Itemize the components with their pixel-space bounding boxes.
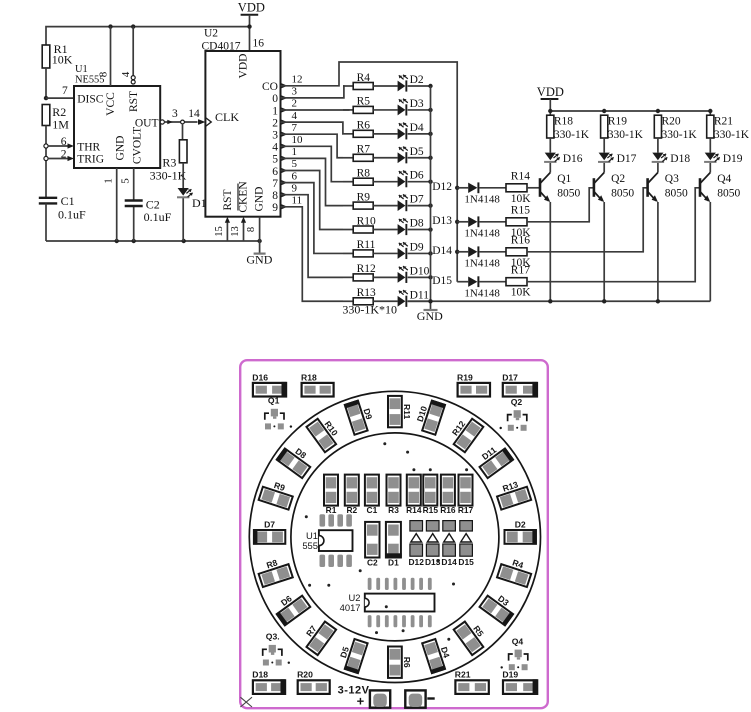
PCB ring footprint R9 <box>259 487 293 510</box>
LED D5 <box>398 147 408 164</box>
wire R4 to D2 <box>373 85 397 87</box>
ground symbol (U2) <box>246 241 272 267</box>
PCB ring footprint D8 <box>276 447 311 478</box>
wire R3 to D1 <box>182 163 184 188</box>
PCB battery pad positive <box>370 690 390 707</box>
svg-text:D9: D9 <box>410 241 424 253</box>
pin 15 RST wire <box>214 217 230 241</box>
PCB ring footprint R6 <box>388 647 402 678</box>
svg-text:D3: D3 <box>410 98 424 110</box>
svg-text:R11: R11 <box>357 239 376 251</box>
svg-text:D2: D2 <box>515 520 526 530</box>
wire C1 to bottom rail <box>45 203 47 241</box>
svg-text:D12: D12 <box>409 557 425 567</box>
svg-text:10K: 10K <box>52 53 73 67</box>
svg-text:9: 9 <box>272 202 278 214</box>
junction U2 pin8 rail <box>257 239 261 243</box>
LED D8 <box>398 218 408 235</box>
LED D1 <box>177 188 193 198</box>
junction D1 rail <box>182 239 186 243</box>
PCB ring label R8 <box>265 557 279 570</box>
svg-text:1N4148: 1N4148 <box>464 227 500 239</box>
svg-text:12: 12 <box>292 74 303 86</box>
svg-text:10K: 10K <box>511 287 532 299</box>
junction top rail / U1 VCC <box>108 24 112 28</box>
wire D14 to R16 <box>479 251 506 253</box>
LED D18 <box>652 153 668 163</box>
junction top rail / U2 VDD pin 16 <box>247 24 251 28</box>
wire R10 to D8 <box>373 229 397 231</box>
PCB footprint Q4 <box>501 636 528 670</box>
svg-text:330-1K: 330-1K <box>554 129 590 141</box>
RST pin terminal circles <box>131 76 135 84</box>
PCB battery label 3-12V <box>338 684 370 708</box>
svg-text:10: 10 <box>292 134 304 146</box>
svg-text:Q4: Q4 <box>512 636 524 646</box>
U2 output pin 11 (9) <box>272 195 302 215</box>
label node D13 <box>432 215 452 227</box>
svg-text:D10: D10 <box>410 265 430 277</box>
junction top rail / U1 RST <box>131 24 135 28</box>
wire feed to diode D15 <box>457 281 468 283</box>
PCB ring label R5 <box>471 624 486 639</box>
U2 output pin 9 (8) <box>272 182 297 202</box>
power symbol VDD (top) <box>238 0 265 51</box>
svg-text:6: 6 <box>61 136 67 148</box>
PCB ring footprint D4 <box>421 639 446 674</box>
PCB ring footprint D10 <box>421 400 446 435</box>
svg-text:D2: D2 <box>410 74 424 86</box>
U2 output pin 5 (6) <box>272 158 297 178</box>
svg-text:1M: 1M <box>52 118 69 132</box>
PCB ring footprint D11 <box>479 447 514 478</box>
svg-text:D8: D8 <box>410 218 424 230</box>
svg-text:R8: R8 <box>357 167 371 179</box>
wire LED cathode bus <box>430 86 432 301</box>
junction bus row D7 <box>428 203 432 207</box>
PCB outer circle <box>249 391 540 682</box>
pin 8 VCC wire <box>97 27 110 86</box>
svg-text:8: 8 <box>246 227 257 232</box>
wire OUT to CLK <box>160 108 204 124</box>
LED D16 <box>544 153 560 163</box>
svg-text:R1: R1 <box>326 505 337 515</box>
CKEN overline <box>237 184 239 211</box>
resistor R20 330-1K <box>654 115 697 141</box>
wire R9 to D7 <box>373 205 397 207</box>
PCB ring label D3 <box>496 593 511 608</box>
junction bus row D6 <box>428 179 432 183</box>
diode D14 1N4148 <box>468 246 479 257</box>
junction bus row D2 <box>428 84 432 88</box>
PCB battery pad negative <box>405 690 425 707</box>
svg-text:D18: D18 <box>670 153 690 165</box>
svg-text:2: 2 <box>272 117 278 129</box>
svg-text:RST: RST <box>222 189 234 210</box>
junction emitter rail Q2 <box>602 299 606 303</box>
resistor R10 <box>353 215 376 233</box>
wire R17 to Q4 base <box>527 188 700 282</box>
PCB footprint R15 <box>423 475 439 516</box>
svg-text:Q2: Q2 <box>511 397 523 407</box>
svg-text:4017: 4017 <box>340 602 361 613</box>
resistor R1 10K <box>42 42 72 68</box>
svg-text:1N4148: 1N4148 <box>464 257 500 269</box>
junction bus row D3 <box>428 108 432 112</box>
PCB footprint R17 <box>458 475 474 516</box>
svg-text:9: 9 <box>292 182 298 194</box>
wire R6 to D4 <box>373 133 397 135</box>
svg-text:D19: D19 <box>502 670 518 680</box>
svg-text:GND: GND <box>417 309 443 323</box>
svg-text:CLK: CLK <box>215 110 239 124</box>
LED D2 <box>398 75 408 92</box>
PCB footprint Q3 <box>263 632 290 666</box>
svg-text:RST: RST <box>128 91 140 112</box>
wire TRIG pin 2 <box>48 148 74 161</box>
PCB ring label R9 <box>273 480 287 493</box>
svg-text:2: 2 <box>61 148 67 160</box>
wire Q4 emitter to rail <box>709 202 711 301</box>
wire output 3 to R7 <box>281 134 344 158</box>
svg-text:330-1K: 330-1K <box>150 169 187 183</box>
svg-text:R11: R11 <box>402 404 412 420</box>
wire D9 cathode to bus <box>408 252 431 254</box>
svg-text:4: 4 <box>272 142 278 154</box>
PCB footprint C2 <box>365 522 379 568</box>
wire output 7 to R11 <box>281 183 344 254</box>
wire R18 to D16 <box>549 138 551 153</box>
svg-text:R16: R16 <box>440 505 456 515</box>
LED D19 <box>704 153 720 163</box>
svg-text:7: 7 <box>272 178 278 190</box>
PCB battery minus label <box>427 697 434 699</box>
svg-text:8050: 8050 <box>611 187 634 199</box>
PCB ring footprint D7 <box>253 529 285 544</box>
svg-text:D7: D7 <box>264 520 275 530</box>
svg-text:0: 0 <box>272 93 278 105</box>
wire output 0 to R4 <box>281 86 344 98</box>
node TRIG tap <box>44 156 48 160</box>
svg-text:R21: R21 <box>714 116 733 128</box>
svg-text:330-1K: 330-1K <box>662 129 698 141</box>
resistor R19 330-1K <box>601 115 644 141</box>
wire D13 to R15 <box>479 221 506 223</box>
wire D11 cathode to bus <box>408 300 431 302</box>
svg-text:D14: D14 <box>441 557 457 567</box>
svg-text:13: 13 <box>230 226 241 237</box>
svg-text:14: 14 <box>188 108 200 120</box>
svg-text:D16: D16 <box>563 153 583 165</box>
svg-text:0.1uF: 0.1uF <box>144 210 172 224</box>
wire R5 to D3 <box>373 109 397 111</box>
svg-text:C1: C1 <box>61 194 75 208</box>
svg-text:R12: R12 <box>357 263 376 275</box>
svg-text:8050: 8050 <box>717 187 740 199</box>
wire R11 to D9 <box>373 252 397 254</box>
LED D9 <box>398 242 408 259</box>
PCB ring footprint D6 <box>276 595 311 626</box>
junction VDD rail <box>656 109 660 113</box>
svg-text:5: 5 <box>119 178 131 184</box>
svg-text:330-1K: 330-1K <box>608 129 644 141</box>
LED D6 <box>398 170 408 187</box>
power symbol VDD (right) <box>537 85 564 115</box>
svg-text:1N4148: 1N4148 <box>464 287 500 299</box>
pin 16 label <box>253 38 265 50</box>
svg-text:VDD: VDD <box>238 54 250 79</box>
PCB footprint D12 <box>409 521 425 567</box>
wire R21 to D19 <box>709 138 711 153</box>
wire DISC pin 7 <box>46 97 74 99</box>
svg-text:D16: D16 <box>252 372 268 382</box>
PCB ring footprint R10 <box>306 419 336 453</box>
wire R16 to Q3 base <box>527 188 648 252</box>
svg-text:D1: D1 <box>388 558 399 568</box>
junction bus row D8 <box>428 227 432 231</box>
resistor R16 10K <box>506 235 531 269</box>
svg-text:R10: R10 <box>357 215 376 227</box>
PCB ring footprint D9 <box>344 400 369 435</box>
transistor Q3 8050 <box>648 173 688 203</box>
svg-text:R21: R21 <box>455 670 471 680</box>
wire output 6 to R10 <box>281 171 344 230</box>
svg-text:CVOLT: CVOLT <box>131 127 143 164</box>
wire feed to diode D14 <box>457 251 468 253</box>
wire R1 to DISC node <box>45 68 47 98</box>
svg-text:R15: R15 <box>511 205 530 217</box>
junction bus row D5 <box>428 156 432 160</box>
wire D12 to R14 <box>479 187 506 189</box>
wire D17 to Q2 collector <box>603 163 605 173</box>
resistor R3 330-1K <box>150 140 187 183</box>
PCB ring label D8 <box>293 446 308 461</box>
wire output 5 to R9 <box>281 158 344 205</box>
capacitor C2 0.1uF <box>125 197 172 224</box>
node DISC junction <box>44 96 48 100</box>
wire R3 branch <box>182 124 184 140</box>
svg-text:15: 15 <box>214 226 225 237</box>
svg-text:Q4: Q4 <box>717 173 731 185</box>
svg-text:R2: R2 <box>346 505 357 515</box>
PCB footprint R19 <box>457 372 490 396</box>
svg-text:C2: C2 <box>367 558 378 568</box>
PCB footprint Q1 <box>265 396 292 430</box>
svg-text:TRIG: TRIG <box>77 154 104 166</box>
svg-text:3: 3 <box>172 108 178 120</box>
resistor R6 <box>353 120 373 138</box>
LED D3 <box>398 99 408 116</box>
svg-text:CKEN: CKEN <box>238 181 250 213</box>
pin 5 CVOLT wire <box>119 168 133 241</box>
PCB ring label D11 <box>480 445 498 462</box>
junction bus row D4 <box>428 132 432 136</box>
svg-text:R3: R3 <box>388 505 399 515</box>
wire D15 to R17 <box>479 281 506 283</box>
wire R15 to Q2 base <box>527 188 594 222</box>
wire bottom rail (555 area) <box>46 240 260 242</box>
LED D7 <box>398 194 408 211</box>
junction bus row D10 <box>428 275 432 279</box>
PCB via dots <box>305 442 468 641</box>
svg-text:D12: D12 <box>432 181 452 193</box>
wire output 4 to R8 <box>281 146 344 181</box>
IC U2 CD4017 counter <box>202 28 281 217</box>
U2 output pin 3 (0) <box>272 86 297 106</box>
PCB footprint Q2 <box>500 397 527 431</box>
svg-text:D14: D14 <box>432 245 452 257</box>
diode D13 1N4148 <box>468 216 479 227</box>
LED D4 <box>398 123 408 140</box>
svg-text:11: 11 <box>292 195 303 207</box>
PCB footprint R2 <box>345 475 359 516</box>
svg-text:D15: D15 <box>458 557 474 567</box>
svg-text:0.1uF: 0.1uF <box>58 208 86 222</box>
label node D14 <box>432 245 452 257</box>
svg-text:8050: 8050 <box>665 187 688 199</box>
wire output 8 to R12 <box>281 195 344 278</box>
PCB ring label D6 <box>279 593 294 608</box>
U2 output pin 4 (2) <box>272 110 297 130</box>
junction VDD rail <box>548 109 552 113</box>
resistor R5 <box>353 96 373 114</box>
PCB ring label R6 <box>402 657 412 668</box>
U2 output pin 10 (4) <box>272 134 303 154</box>
PCB ring footprint R11 <box>388 396 402 427</box>
transistor Q1 8050 <box>540 173 580 203</box>
resistor R4 <box>353 72 373 90</box>
svg-text:Q1: Q1 <box>268 396 280 406</box>
LED D17 <box>598 153 614 163</box>
PCB ring footprint R4 <box>497 564 531 587</box>
op-amp U1 NE555 timer <box>74 64 160 168</box>
svg-text:R18: R18 <box>301 372 317 382</box>
svg-text:R20: R20 <box>662 116 681 128</box>
PCB ring label D4 <box>439 646 452 660</box>
svg-text:R20: R20 <box>297 670 313 680</box>
PCB footprint D1 <box>385 522 402 568</box>
junction emitter rail Q3 <box>656 299 660 303</box>
svg-text:D18: D18 <box>252 670 268 680</box>
svg-text:Q3: Q3 <box>665 173 679 185</box>
svg-text:D17: D17 <box>617 153 637 165</box>
svg-text:330-1K: 330-1K <box>714 129 750 141</box>
svg-text:R15: R15 <box>423 505 439 515</box>
svg-text:R5: R5 <box>357 96 371 108</box>
svg-text:1: 1 <box>272 105 278 117</box>
PCB footprint R14 <box>406 475 422 516</box>
svg-text:R16: R16 <box>511 235 530 247</box>
PCB footprint D18 <box>252 670 285 695</box>
svg-text:7: 7 <box>292 122 298 134</box>
PCB ring footprint D3 <box>479 595 514 626</box>
wire Q1 emitter to rail <box>549 202 551 301</box>
svg-text:DISC: DISC <box>77 94 104 106</box>
PCB ring footprint R8 <box>259 564 293 587</box>
resistor R7 <box>353 144 373 162</box>
svg-text:7: 7 <box>62 85 68 97</box>
wire collector VDD rail <box>550 111 710 115</box>
resistor R21 330-1K <box>707 115 750 141</box>
svg-text:CD4017: CD4017 <box>202 40 241 52</box>
PCB footprint R18 <box>301 372 334 396</box>
svg-text:3: 3 <box>272 130 278 142</box>
resistor R15 10K <box>506 205 531 239</box>
pin 8 GND wire <box>246 217 259 241</box>
U2 output pin 1 (5) <box>272 146 297 166</box>
svg-text:R19: R19 <box>608 116 627 128</box>
svg-text:3: 3 <box>292 86 298 98</box>
wire top VDD rail <box>46 27 250 46</box>
resistor R14 10K <box>506 171 531 205</box>
PCB ring footprint R12 <box>454 419 484 453</box>
svg-text:8: 8 <box>272 190 278 202</box>
junction emitter rail Q1 <box>548 299 552 303</box>
wire Q2 emitter to rail <box>603 202 605 301</box>
ground symbol (LED bus) <box>417 301 443 323</box>
wire feed to diode D12 <box>457 187 468 189</box>
PCB footprint D15 <box>458 521 474 567</box>
svg-text:8050: 8050 <box>557 187 580 199</box>
PCB footprint U2 4017 <box>340 578 435 628</box>
svg-text:R3: R3 <box>162 155 176 169</box>
svg-text:THR: THR <box>77 141 100 153</box>
svg-text:555: 555 <box>302 540 318 551</box>
junction pin1 GND rail <box>115 239 119 243</box>
capacitor C1 0.1uF <box>39 194 86 221</box>
svg-text:Q1: Q1 <box>557 173 571 185</box>
PCB footprint D19 <box>502 670 537 695</box>
label node D15 <box>432 275 452 287</box>
wire R7 to D5 <box>373 157 397 159</box>
wire output 9 to R13 <box>281 207 344 301</box>
wire D5 cathode to bus <box>408 157 431 159</box>
PCB ring label R11 <box>402 404 412 420</box>
svg-text:CO: CO <box>262 81 278 93</box>
PCB ring footprint D5 <box>344 639 369 674</box>
PCB ring label D5 <box>338 645 351 659</box>
svg-text:2: 2 <box>292 98 298 110</box>
PCB origin marker X <box>240 697 252 707</box>
CLK input arrow <box>198 118 211 127</box>
svg-text:R17: R17 <box>458 505 474 515</box>
svg-text:D5: D5 <box>410 146 424 158</box>
PCB ring label D7 <box>264 520 275 530</box>
svg-text:5: 5 <box>272 154 278 166</box>
svg-text:R18: R18 <box>554 116 573 128</box>
U2 output pin 12 (CO) <box>262 74 302 94</box>
PCB footprint D17 <box>502 372 537 397</box>
svg-text:Q2: Q2 <box>611 173 625 185</box>
wire output 2 to R6 <box>281 122 344 134</box>
LED D11 <box>398 290 408 307</box>
svg-text:D6: D6 <box>410 170 424 182</box>
PCB footprint R21 <box>455 670 489 694</box>
svg-text:D13: D13 <box>432 215 452 227</box>
PCB footprint R16 <box>440 475 456 516</box>
svg-text:R14: R14 <box>406 505 422 515</box>
junction pin5 CVOLT rail <box>132 239 136 243</box>
PCB footprint U1 555 <box>302 514 352 567</box>
junction VDD rail <box>602 109 606 113</box>
wire R2 to THR/TRIG taps <box>45 126 47 198</box>
svg-text:D19: D19 <box>723 153 743 165</box>
wire R20 to D18 <box>657 138 659 153</box>
svg-text:VDD: VDD <box>537 85 564 99</box>
wire R12 to D10 <box>373 276 397 278</box>
wire Q3 emitter to rail <box>657 202 659 301</box>
svg-text:R13: R13 <box>357 287 376 299</box>
